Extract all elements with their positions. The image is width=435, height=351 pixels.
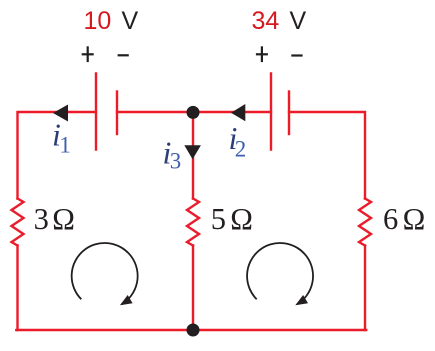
svg-text:6: 6 xyxy=(383,202,398,236)
node: bottom junction xyxy=(187,324,200,337)
label: current i2 xyxy=(229,120,247,162)
voltage source 10V: short negative plate xyxy=(116,92,118,135)
svg-text:Ω: Ω xyxy=(403,202,426,236)
loop arrow: left mesh (clockwise) xyxy=(72,243,138,305)
label: 10 V value xyxy=(84,7,139,35)
svg-text:V: V xyxy=(290,7,307,35)
polarity plus sign of 34V source xyxy=(256,46,268,62)
wire: middle branch bottom xyxy=(192,246,194,331)
svg-text:5: 5 xyxy=(211,202,226,236)
svg-text:2: 2 xyxy=(235,137,247,162)
loop arrow: right mesh (clockwise) xyxy=(247,243,313,305)
svg-text:34: 34 xyxy=(252,7,280,35)
wire: left branch top (top-left corner) xyxy=(18,112,97,199)
svg-text:Ω: Ω xyxy=(230,202,253,236)
resistor 5-ohm zigzag xyxy=(187,199,199,246)
wire: top rail middle (between sources, through node) xyxy=(117,111,271,113)
current arrow i3 (points down) xyxy=(184,145,201,159)
resistor 3-ohm zigzag xyxy=(12,199,24,246)
wire: middle branch top xyxy=(192,112,194,199)
wire: bottom rail xyxy=(16,329,366,331)
label: resistor value 5 ohm xyxy=(211,202,253,236)
label: current i1 xyxy=(52,117,71,158)
svg-text:10: 10 xyxy=(84,7,112,35)
svg-text:3: 3 xyxy=(170,149,182,174)
voltage source 34V: short negative plate xyxy=(288,92,290,135)
label: resistor value 6 ohm xyxy=(383,202,425,236)
polarity minus sign of 34V source xyxy=(291,54,302,56)
svg-text:V: V xyxy=(122,7,139,35)
voltage source 10V: long positive plate xyxy=(95,74,97,150)
wire: top rail right and right branch top xyxy=(289,112,365,199)
current arrow i2 (points left) xyxy=(231,104,245,121)
label: current i3 xyxy=(163,134,182,173)
polarity minus sign of 10V source xyxy=(118,54,129,56)
svg-text:1: 1 xyxy=(59,133,71,158)
wire: left branch bottom xyxy=(16,246,18,331)
resistor 6-ohm zigzag xyxy=(359,199,371,246)
label: 34 V value xyxy=(252,7,307,35)
node: top junction xyxy=(187,106,200,119)
wire: right branch bottom xyxy=(364,246,366,331)
current arrow i1 (points left) xyxy=(53,105,68,122)
polarity plus sign of 10V source xyxy=(82,46,94,62)
svg-text:3: 3 xyxy=(34,202,49,236)
voltage source 34V: long positive plate xyxy=(270,74,272,150)
svg-text:Ω: Ω xyxy=(52,202,75,236)
label: resistor value 3 ohm xyxy=(34,202,75,236)
